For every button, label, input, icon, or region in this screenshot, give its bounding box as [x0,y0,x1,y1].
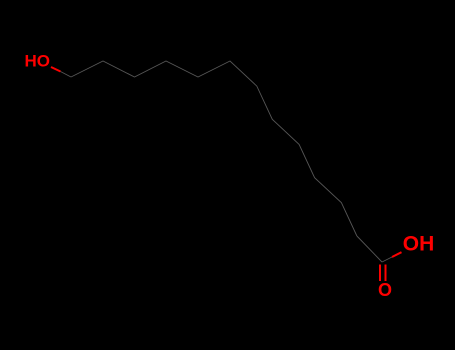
svg-text:O: O [378,280,392,300]
carbonyl C=O double bond [379,265,381,282]
chain C1..C12 [71,61,357,236]
svg-text:OH: OH [403,233,435,256]
bond C12-C13 (to acid carbon) [357,236,382,262]
svg-text:HO: HO [25,52,51,71]
bond C13-OH red half [392,252,402,257]
bond C13-OH carbon half [382,257,392,262]
bond O-C1 red half [51,67,61,72]
bond O-C1 carbon half [61,72,72,78]
